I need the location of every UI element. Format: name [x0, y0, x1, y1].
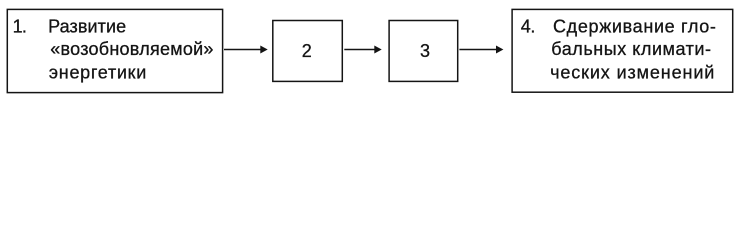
- svg-text:Развитие: Развитие: [48, 17, 126, 37]
- svg-text:3: 3: [420, 41, 430, 61]
- svg-text:ческих изменений: ческих изменений: [550, 62, 715, 82]
- svg-text:энергетики: энергетики: [49, 62, 147, 82]
- svg-text:2: 2: [302, 41, 312, 61]
- svg-text:1.: 1.: [13, 17, 27, 37]
- svg-text:бальных климати-: бальных климати-: [551, 39, 711, 59]
- svg-text:4.: 4.: [521, 17, 535, 37]
- svg-text:«возобновляемой»: «возобновляемой»: [50, 39, 213, 59]
- svg-text:Сдерживание гло-: Сдерживание гло-: [553, 17, 717, 37]
